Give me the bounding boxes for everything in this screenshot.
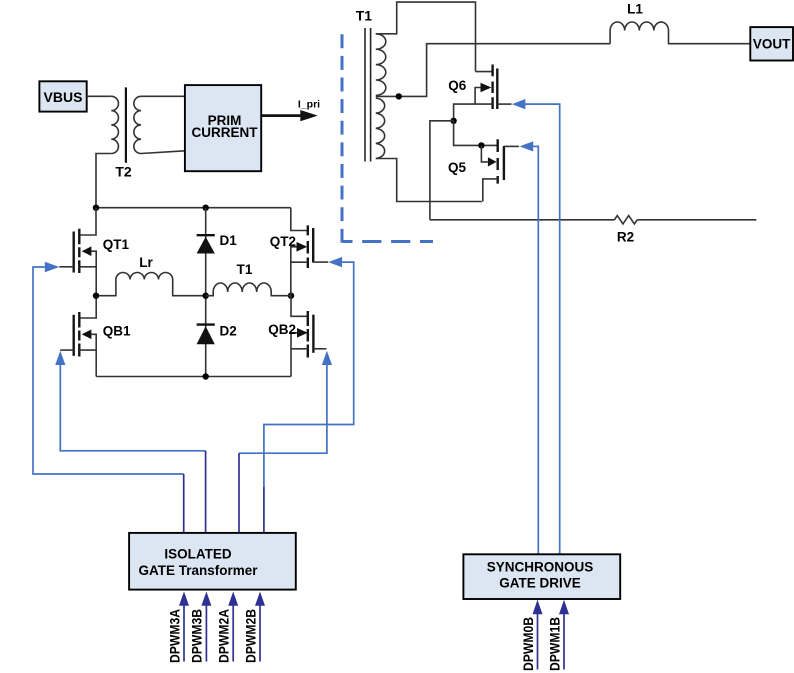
resistor R2 bbox=[614, 216, 637, 245]
bottom rail bbox=[96, 376, 291, 378]
svg-text:VOUT: VOUT bbox=[753, 37, 791, 52]
inductor L1 bbox=[610, 1, 750, 43]
dashed divider vertical bbox=[341, 34, 344, 243]
svg-text:QT2: QT2 bbox=[270, 234, 296, 249]
gate wire QB2 (blue) bbox=[239, 351, 332, 533]
svg-text:QB1: QB1 bbox=[103, 324, 131, 339]
diode D1 bbox=[197, 208, 238, 296]
transformer T1 primary winding bbox=[206, 262, 291, 296]
wire T1 top to Q6 drain loop bbox=[376, 2, 476, 72]
svg-text:R2: R2 bbox=[617, 230, 634, 245]
wire VBUS to T2 primary bbox=[87, 95, 112, 97]
T1 secondary winding upper bbox=[376, 34, 386, 96]
mosfet Q5 bbox=[448, 121, 519, 202]
svg-text:DPWM2A: DPWM2A bbox=[217, 609, 232, 663]
node center tap bbox=[396, 93, 402, 99]
T1 core bbox=[365, 28, 371, 162]
svg-text:T1: T1 bbox=[237, 262, 253, 277]
diode D2 bbox=[197, 296, 237, 377]
gate wire QB1 (blue) bbox=[55, 351, 205, 533]
wire T1 center tap to output rail bbox=[376, 44, 610, 97]
mosfet QB2 bbox=[268, 296, 326, 377]
node top rail D1 bbox=[203, 205, 209, 211]
svg-text:I_pri: I_pri bbox=[298, 98, 320, 110]
PRIM CURRENT box bbox=[185, 85, 261, 171]
resistor R2 wire bbox=[430, 219, 615, 221]
wire T2 secondary top to PRIM CURRENT bbox=[141, 95, 185, 97]
svg-text:ISOLATED: ISOLATED bbox=[164, 547, 232, 562]
inductor Lr bbox=[96, 255, 206, 296]
svg-text:DPWM1B: DPWM1B bbox=[547, 617, 562, 671]
mosfet Q6 bbox=[448, 65, 511, 121]
gate wire Q5 (blue) bbox=[520, 141, 539, 554]
svg-text:L1: L1 bbox=[627, 1, 643, 16]
VBUS box bbox=[39, 81, 86, 111]
wire T2 secondary bottom to PRIM CURRENT bbox=[141, 151, 185, 154]
gate wire Q6 (blue) bbox=[512, 99, 560, 554]
VOUT box bbox=[750, 27, 793, 60]
node bottom rail bbox=[203, 373, 209, 379]
transformer T2 secondary winding bbox=[134, 96, 141, 153]
resistor R2 wire right bbox=[637, 219, 756, 221]
svg-text:Lr: Lr bbox=[139, 255, 153, 270]
svg-text:DPWM3B: DPWM3B bbox=[190, 609, 205, 663]
input arrow DPWM2A bbox=[217, 592, 239, 664]
svg-text:DPWM0B: DPWM0B bbox=[521, 617, 536, 671]
svg-text:Q5: Q5 bbox=[448, 160, 467, 175]
node mid rail right bbox=[288, 293, 294, 299]
wire T2 primary to bridge top rail bbox=[96, 154, 111, 208]
svg-text:VBUS: VBUS bbox=[44, 89, 83, 105]
input arrow DPWM3A bbox=[167, 592, 189, 664]
node Q6 source / Q5 drain bbox=[450, 118, 456, 124]
svg-text:QB2: QB2 bbox=[268, 322, 296, 337]
input arrow DPWM3B bbox=[190, 592, 212, 664]
node mid rail center bbox=[203, 293, 209, 299]
svg-text:GATE Transformer: GATE Transformer bbox=[138, 563, 258, 578]
input arrow DPWM0B bbox=[521, 600, 543, 671]
I_pri arrow bbox=[261, 98, 320, 121]
wire T1 bottom to Q5 source bbox=[376, 159, 482, 202]
svg-text:D1: D1 bbox=[220, 233, 238, 248]
svg-text:GATE DRIVE: GATE DRIVE bbox=[499, 575, 581, 590]
svg-text:DPWM2B: DPWM2B bbox=[243, 609, 258, 663]
transformer T2 primary winding bbox=[111, 96, 118, 153]
wire node to current sense R2 bbox=[430, 121, 454, 220]
node top rail left bbox=[93, 205, 99, 211]
svg-text:CURRENT: CURRENT bbox=[192, 125, 259, 140]
svg-text:SYNCHRONOUS: SYNCHRONOUS bbox=[487, 559, 594, 574]
dashed divider horizontal bbox=[343, 240, 433, 243]
gate wire QT1 (blue) bbox=[33, 262, 184, 533]
input arrow DPWM2B bbox=[243, 592, 265, 664]
svg-text:T1: T1 bbox=[356, 7, 373, 23]
top rail bbox=[96, 207, 291, 209]
svg-text:QT1: QT1 bbox=[103, 237, 130, 252]
ISOLATED GATE Transformer box bbox=[129, 533, 296, 590]
mosfet QB1 bbox=[60, 296, 131, 377]
svg-text:DPWM3A: DPWM3A bbox=[167, 609, 182, 663]
svg-text:Q6: Q6 bbox=[448, 78, 467, 93]
svg-text:T2: T2 bbox=[115, 163, 132, 179]
node mid rail left bbox=[93, 293, 99, 299]
svg-text:D2: D2 bbox=[220, 324, 237, 339]
T1 secondary winding lower bbox=[376, 98, 385, 158]
SYNCHRONOUS GATE DRIVE box bbox=[463, 554, 620, 599]
T2 core bbox=[125, 87, 127, 162]
gate wire QT2 (blue) bbox=[264, 257, 354, 533]
mosfet QT2 bbox=[270, 208, 328, 296]
input arrow DPWM1B bbox=[547, 600, 569, 671]
mosfet QT1 bbox=[59, 208, 129, 296]
